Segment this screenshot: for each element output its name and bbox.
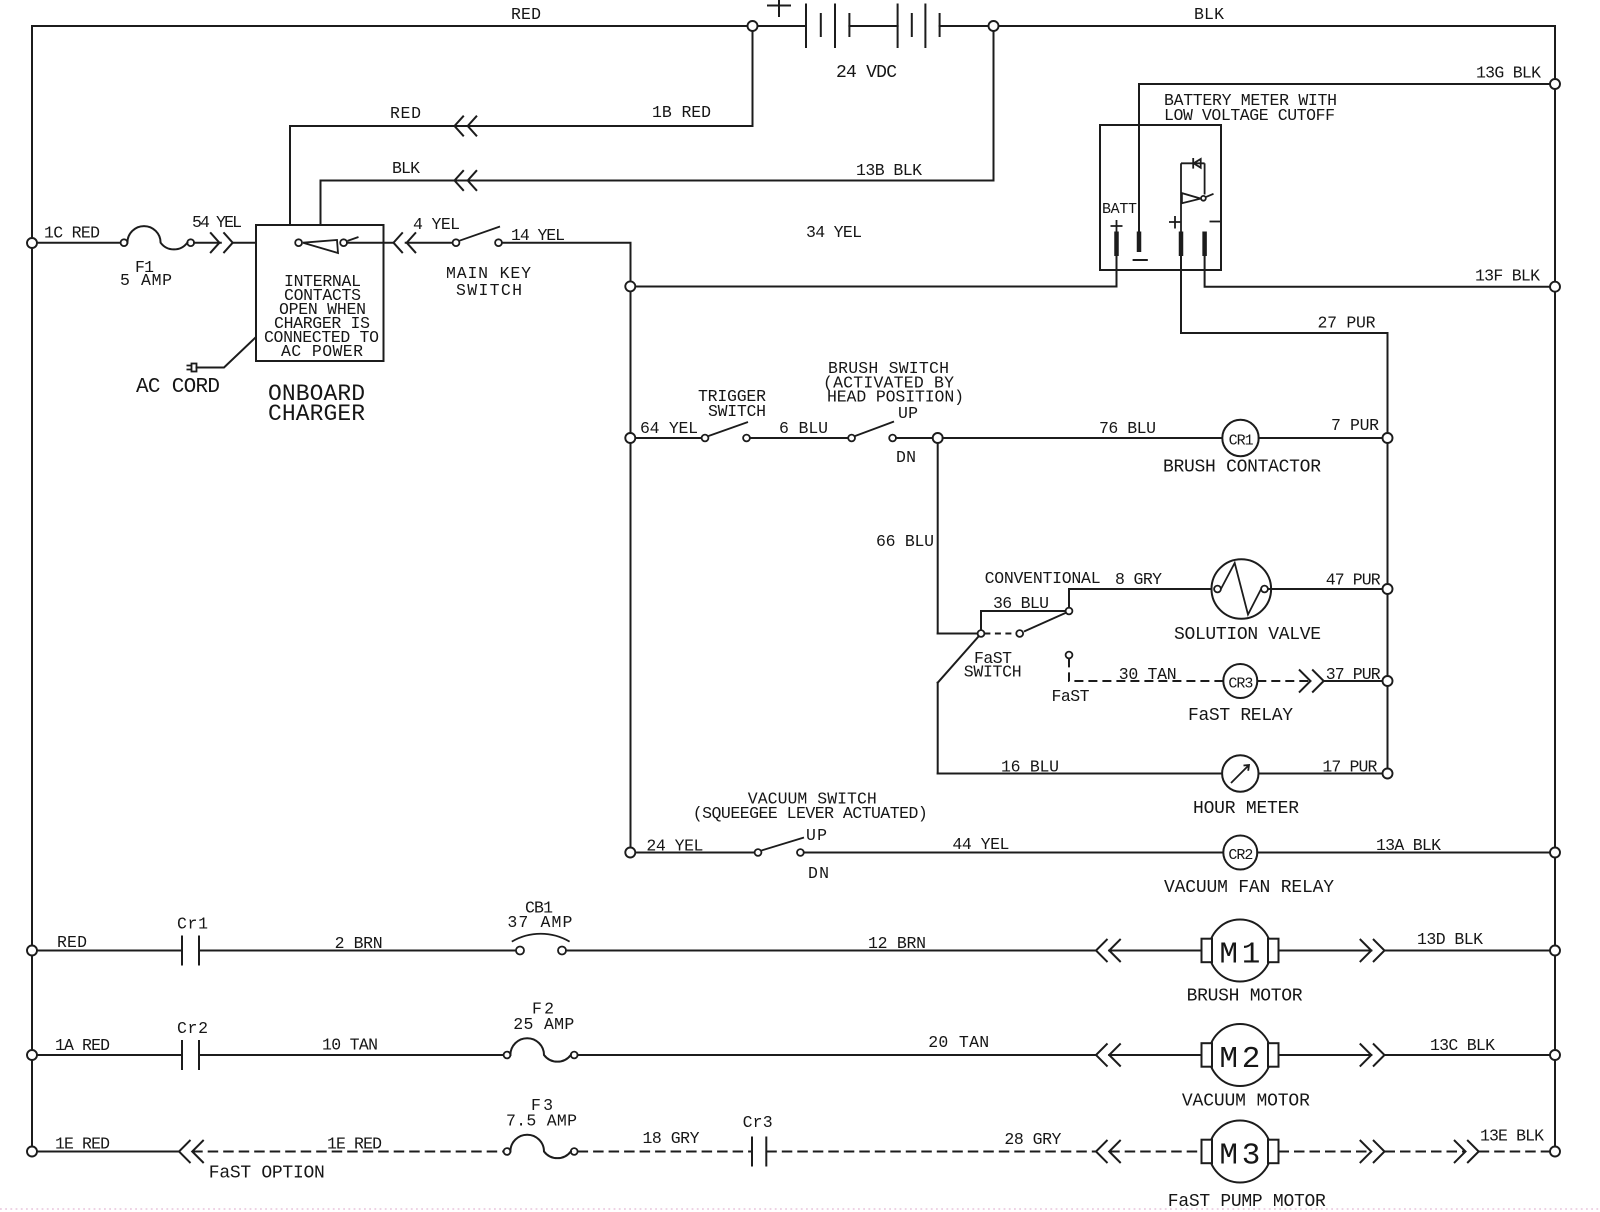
meter BATT- terminal xyxy=(1137,232,1142,253)
wire: dashed 1E RED to F3 xyxy=(192,1151,503,1153)
svg-text:1B RED: 1B RED xyxy=(652,103,711,122)
svg-text:17 PUR: 17 PUR xyxy=(1322,757,1377,776)
node: 13E junction xyxy=(1550,1147,1560,1157)
svg-text:VACUUM FAN RELAY: VACUUM FAN RELAY xyxy=(1164,878,1334,898)
svg-text:13C BLK: 13C BLK xyxy=(1430,1036,1495,1055)
FaST switch fast throw contact xyxy=(1016,630,1023,637)
wire: chevron to 13D junction xyxy=(1385,950,1556,952)
AC cord plug xyxy=(192,364,197,372)
FaST switch blade xyxy=(1024,613,1067,632)
node: 66 BLU junction xyxy=(933,433,943,443)
svg-text:28 GRY: 28 GRY xyxy=(1004,1130,1061,1149)
svg-text:Cr1: Cr1 xyxy=(177,915,208,934)
FaST feed contact circle xyxy=(1066,652,1073,659)
wire: M1 to right chevron xyxy=(1279,950,1372,952)
svg-text:4 YEL: 4 YEL xyxy=(413,215,460,234)
svg-text:AC POWER: AC POWER xyxy=(281,342,363,361)
connector chevron 13E xyxy=(1455,1141,1479,1163)
svg-text:12 BRN: 12 BRN xyxy=(868,934,926,953)
connector chevron 54 YEL xyxy=(211,233,233,252)
svg-text:1E RED: 1E RED xyxy=(327,1135,382,1154)
connector chevron (FaST option) xyxy=(179,1141,203,1163)
node: 13A junction xyxy=(1550,848,1560,858)
page boundary dotted line xyxy=(0,1208,1600,1210)
svg-text:SWITCH: SWITCH xyxy=(708,402,766,421)
wire: to Cr2 xyxy=(37,1054,182,1056)
svg-text:HOUR METER: HOUR METER xyxy=(1193,799,1299,819)
wire: CR1 to 7 PUR junction xyxy=(1259,437,1388,439)
wire: chevron to 13C junction xyxy=(1385,1054,1556,1056)
trigger switch S2 xyxy=(702,435,709,442)
svg-text:RED: RED xyxy=(511,5,541,24)
wire: dashed 30 TAN to CR3 xyxy=(1069,658,1223,681)
svg-text:CR2: CR2 xyxy=(1228,847,1253,864)
wire: battery- drop to 13B BLK line xyxy=(321,31,994,225)
svg-text:SWITCH: SWITCH xyxy=(964,663,1022,682)
wire: solid to chevron xyxy=(37,1151,179,1153)
svg-text:18 GRY: 18 GRY xyxy=(643,1129,700,1148)
svg-text:CONVENTIONAL: CONVENTIONAL xyxy=(985,569,1101,588)
main key switch S1 xyxy=(453,239,460,246)
node: vacuum row junction xyxy=(625,848,635,858)
fuse F3 xyxy=(504,1148,511,1155)
node: battery + junction xyxy=(748,21,758,31)
svg-text:SOLUTION VALVE: SOLUTION VALVE xyxy=(1174,625,1321,645)
svg-text:LOW VOLTAGE CUTOFF: LOW VOLTAGE CUTOFF xyxy=(1164,106,1335,125)
node: M3 row left junction xyxy=(27,1147,37,1157)
svg-text:8 GRY: 8 GRY xyxy=(1115,570,1162,589)
battery B1 cells xyxy=(806,5,925,48)
wire: Cr1 to CB1 xyxy=(199,950,517,952)
wire: inner right vertical x=1387.5 xyxy=(1387,443,1389,774)
connector chevron right (M3) xyxy=(1361,1141,1385,1163)
wire: brush switch to 66 BLU node xyxy=(896,437,938,439)
wire: chevron to 37 PUR junction xyxy=(1324,680,1388,682)
node: trigger row junction xyxy=(625,433,635,443)
svg-text:30 TAN: 30 TAN xyxy=(1119,665,1177,684)
meter plus terminal leg xyxy=(1180,163,1182,231)
fuse F1 xyxy=(121,239,128,246)
node: 1C RED left border junction xyxy=(27,238,37,248)
svg-text:13A BLK: 13A BLK xyxy=(1376,836,1441,855)
svg-text:13F BLK: 13F BLK xyxy=(1475,267,1540,286)
svg-text:37 AMP: 37 AMP xyxy=(507,913,572,932)
relay coil CR3 xyxy=(1223,664,1257,698)
wire: dashed between chevrons xyxy=(1385,1151,1466,1153)
connector chevron on 13B BLK line xyxy=(455,171,477,190)
svg-text:BATT: BATT xyxy=(1102,201,1137,218)
wire: chevron to M1 xyxy=(1109,950,1201,952)
svg-text:64 YEL: 64 YEL xyxy=(640,419,698,438)
wire: battery+ drop to 1B RED line xyxy=(290,31,753,225)
svg-text:BRUSH CONTACTOR: BRUSH CONTACTOR xyxy=(1163,458,1321,478)
battery B1 24VDC plus sign xyxy=(768,0,790,16)
wire: 14 YEL to corner down to rail xyxy=(502,243,631,282)
hour meter M4 xyxy=(1222,755,1258,791)
wire: key switch drop vertical x=630 xyxy=(630,292,632,848)
svg-text:13E BLK: 13E BLK xyxy=(1480,1127,1544,1146)
motor M2 xyxy=(1209,1024,1271,1086)
wire: to FaST switch common xyxy=(938,633,978,635)
wire: 4 YEL to key switch xyxy=(406,242,453,244)
svg-text:Cr2: Cr2 xyxy=(177,1019,208,1038)
connector chevron 37 PUR xyxy=(1300,670,1324,692)
connector chevron right (M2) xyxy=(1361,1044,1385,1066)
connector chevron 4 YEL xyxy=(394,233,416,252)
wire: dashed Cr3 to left chevron xyxy=(766,1151,1096,1153)
battery meter box xyxy=(1100,125,1221,270)
svg-text:FaST: FaST xyxy=(1052,687,1090,706)
node: 13G junction on right border xyxy=(1550,79,1560,89)
svg-text:7 PUR: 7 PUR xyxy=(1331,416,1379,435)
relay coil CR2 xyxy=(1223,836,1257,870)
wire: 24 YEL to vacuum switch xyxy=(636,852,755,854)
FaST switch common contact xyxy=(978,630,985,637)
wire: dashed chevron to M3 xyxy=(1109,1151,1201,1153)
contact Cr3 xyxy=(752,1138,766,1166)
brush switch S3 xyxy=(848,435,855,442)
svg-text:FaST RELAY: FaST RELAY xyxy=(1188,706,1293,726)
svg-text:1C RED: 1C RED xyxy=(44,224,100,243)
connector chevron right (M1) xyxy=(1361,940,1385,962)
svg-text:AC CORD: AC CORD xyxy=(136,376,220,399)
wire: F1 to charger xyxy=(194,242,221,244)
svg-text:FaST OPTION: FaST OPTION xyxy=(209,1164,325,1184)
svg-text:5 AMP: 5 AMP xyxy=(120,271,172,290)
svg-text:10 TAN: 10 TAN xyxy=(322,1036,378,1055)
svg-text:20 TAN: 20 TAN xyxy=(928,1033,989,1052)
wire: dashed M3 to right chevron xyxy=(1279,1151,1372,1153)
node: 13F junction on right border xyxy=(1550,282,1560,292)
wire: top RED/BLK bus y=26 xyxy=(32,25,806,27)
meter diode D1 xyxy=(1181,162,1205,164)
wire: hour meter to 17 PUR junction xyxy=(1259,773,1388,775)
svg-text:CHARGER: CHARGER xyxy=(268,401,365,427)
fuse F2 xyxy=(504,1052,511,1059)
node: 17 PUR junction xyxy=(1383,769,1393,779)
wire: M2 to right chevron xyxy=(1279,1054,1372,1056)
svg-text:CR3: CR3 xyxy=(1228,676,1253,693)
node: 13D junction xyxy=(1550,946,1560,956)
svg-text:BLK: BLK xyxy=(1194,5,1224,24)
connector chevron left (M1) xyxy=(1096,940,1120,962)
wire: dashed F3 to Cr3 xyxy=(578,1151,752,1153)
svg-text:25 AMP: 25 AMP xyxy=(513,1015,574,1034)
svg-text:2 BRN: 2 BRN xyxy=(335,934,383,953)
svg-text:DN: DN xyxy=(896,448,916,467)
svg-text:47 PUR: 47 PUR xyxy=(1326,571,1381,590)
node: 37 PUR junction xyxy=(1383,676,1393,686)
dashed link common to fast contact xyxy=(984,633,1016,635)
svg-text:UP: UP xyxy=(898,404,918,423)
wire: 6 BLU to brush switch xyxy=(750,437,848,439)
svg-text:66 BLU: 66 BLU xyxy=(876,532,934,551)
wire: 1C RED to fuse F1 xyxy=(37,242,121,244)
contact Cr1 xyxy=(182,937,199,965)
svg-text:M 1: M 1 xyxy=(1219,938,1260,973)
svg-text:1A RED: 1A RED xyxy=(55,1036,110,1055)
wire: Cr2 to F2 xyxy=(199,1054,504,1056)
svg-text:RED: RED xyxy=(57,933,87,952)
meter minus terminal leg xyxy=(1204,163,1206,194)
wire: 64 YEL to trigger switch xyxy=(636,437,702,439)
svg-text:54 YEL: 54 YEL xyxy=(192,213,242,232)
wire: to Cr1 xyxy=(37,950,182,952)
node: M2 row left junction xyxy=(27,1050,37,1060)
svg-text:76 BLU: 76 BLU xyxy=(1099,419,1156,438)
node: 13C junction xyxy=(1550,1050,1560,1060)
wire: F2 to left chevron xyxy=(578,1054,1096,1056)
node: battery - junction xyxy=(989,21,999,31)
svg-text:24 VDC: 24 VDC xyxy=(836,63,897,83)
svg-text:7.5 AMP: 7.5 AMP xyxy=(506,1112,577,1131)
svg-text:HEAD POSITION): HEAD POSITION) xyxy=(827,388,964,407)
wire: solution valve to 47 PUR junction xyxy=(1268,588,1388,590)
wire: 8 GRY riser and line to solution valve xyxy=(1069,589,1214,608)
svg-text:37 PUR: 37 PUR xyxy=(1326,665,1381,684)
motor M3 xyxy=(1209,1121,1271,1183)
svg-text:UP: UP xyxy=(806,826,827,845)
svg-text:27 PUR: 27 PUR xyxy=(1318,314,1376,333)
FaST switch conventional contact xyxy=(1066,608,1073,615)
wire: dashed CR3 to chevron xyxy=(1257,680,1310,682)
node: 47 PUR junction xyxy=(1383,584,1393,594)
wire: 34 YEL rail xyxy=(631,286,1117,288)
charger internal contact xyxy=(295,239,302,246)
wire: 27 PUR from meter plus down and right xyxy=(1181,256,1388,433)
node: rail junction at key switch drop xyxy=(625,281,635,291)
svg-text:6 BLU: 6 BLU xyxy=(779,419,828,438)
svg-text:CR1: CR1 xyxy=(1229,433,1254,450)
wire: chevron to M2 xyxy=(1109,1054,1201,1056)
svg-text:13D BLK: 13D BLK xyxy=(1417,930,1483,949)
onboard charger box xyxy=(256,225,384,361)
node: 7 PUR junction xyxy=(1383,433,1393,443)
svg-text:16 BLU: 16 BLU xyxy=(1001,757,1059,776)
wire: 36 BLU loop xyxy=(981,611,1066,630)
svg-text:36 BLU: 36 BLU xyxy=(993,594,1049,613)
wire: meter minus down to 13F BLK rail to right border xyxy=(1205,256,1555,287)
svg-text:44 YEL: 44 YEL xyxy=(952,835,1009,854)
wire: diagonal from common down to hour meter leg xyxy=(938,637,979,683)
connector chevron on 1B RED line xyxy=(455,116,477,135)
wire: right border x=1555 xyxy=(1554,26,1556,1152)
svg-text:(SQUEEGEE LEVER ACTUATED): (SQUEEGEE LEVER ACTUATED) xyxy=(693,804,928,823)
wire: dashed to 13E junction xyxy=(1479,1151,1550,1153)
meter comparator triangle xyxy=(1182,193,1201,203)
svg-text:RED: RED xyxy=(390,104,421,123)
svg-text:Cr3: Cr3 xyxy=(743,1113,773,1132)
node: M1 row left junction xyxy=(27,946,37,956)
svg-text:SWITCH: SWITCH xyxy=(456,281,522,300)
connector chevron left (M3) xyxy=(1096,1141,1120,1163)
wire: 66 BLU vertical x=937.7 xyxy=(937,443,939,634)
motor M1 xyxy=(1209,920,1271,982)
wire: CB1 to left chevron xyxy=(566,950,1096,952)
svg-text:13G BLK: 13G BLK xyxy=(1476,64,1541,83)
wire: AC cord lead xyxy=(197,338,256,368)
relay coil CR1 xyxy=(1222,420,1258,456)
wire: CR2 to 13A junction xyxy=(1257,852,1555,854)
vacuum switch S4 xyxy=(755,849,762,856)
wire: 76 BLU to CR1 xyxy=(943,437,1223,439)
meter BATT+ terminal xyxy=(1111,220,1123,233)
circuit breaker CB1 xyxy=(516,947,524,955)
solution valve L1 xyxy=(1212,559,1272,619)
wire: 16 BLU to hour meter xyxy=(938,773,1222,775)
wire: charger contact to 4 YEL xyxy=(347,242,393,244)
svg-text:VACUUM MOTOR: VACUUM MOTOR xyxy=(1182,1092,1310,1112)
svg-text:34 YEL: 34 YEL xyxy=(806,223,862,242)
svg-text:13B BLK: 13B BLK xyxy=(856,161,922,180)
svg-text:DN: DN xyxy=(808,864,829,883)
svg-text:BLK: BLK xyxy=(392,159,420,178)
wire: BATT+ down to 34 YEL rail xyxy=(1116,256,1118,287)
contact Cr2 xyxy=(182,1041,199,1069)
svg-text:BRUSH MOTOR: BRUSH MOTOR xyxy=(1187,986,1303,1006)
wire: 13G BLK from meter to right border xyxy=(1139,84,1555,232)
wire: 44 YEL to CR2 xyxy=(804,852,1223,854)
wire: left border x=32 xyxy=(31,26,33,1152)
connector chevron left (M2) xyxy=(1096,1044,1120,1066)
